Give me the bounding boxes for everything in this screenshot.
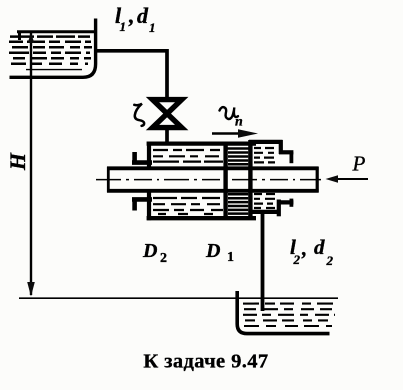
cylinder D2 top wall [147,142,256,146]
arrow P (force) [335,178,368,180]
D1 right end wall upper [279,140,283,154]
cylinder D2 bottom wall [147,216,256,220]
piston rod bottom edge [107,189,319,193]
H line top arrowhead [28,33,35,43]
svg-text:D: D [142,240,157,262]
piston right edge [248,140,252,218]
lower tank water hatching [243,304,335,326]
svg-text:,: , [301,236,307,260]
piston left edge [223,142,227,221]
fluid hatching right chamber upper [254,148,278,162]
arrow vn (piston velocity) [212,132,241,135]
right gland lower [277,200,293,204]
pipe 1 from valve to cylinder [165,128,169,142]
label zeta [134,104,144,126]
lower tank left wall and bottom [237,291,329,334]
fluid hatching left chamber upper [153,150,223,162]
svg-text:n: n [235,115,243,130]
pipe 2 from cylinder to lower tank [261,212,265,311]
lower free-surface level line [19,297,338,299]
upper tank surface line [17,30,94,33]
cylinder D1 bottom wall [251,210,281,214]
upper tank left rim tick [18,31,21,40]
rod left end cap [107,167,110,193]
svg-text:P: P [352,152,366,176]
upper tank lowest water line [26,69,82,71]
rod centerline (dash-dot) [96,179,321,181]
svg-text:2: 2 [293,252,301,267]
upper tank water hatching [9,37,92,64]
cylinder D2 left wall upper [147,142,151,168]
right gland upper [279,150,293,154]
P arrowhead [326,175,339,183]
fluid hatching left chamber lower [153,198,223,214]
svg-text:1: 1 [149,20,156,35]
label vn [220,107,239,119]
left gland lower [132,197,152,202]
svg-text:1: 1 [227,250,234,265]
fluid hatching right chamber lower [254,194,278,208]
svg-text:D: D [205,240,220,262]
rod right end cap [316,167,319,193]
vn arrowhead [238,129,258,138]
label l2,d2 [290,235,334,268]
dimension line H [30,33,32,295]
cylinder D1 top wall [249,140,283,144]
svg-text:H: H [5,152,30,171]
cylinder D2 left wall lower [147,192,151,221]
label l1,d1 [115,3,156,35]
svg-text:,: , [128,3,135,28]
pipe 1 from tank to valve [96,51,167,99]
D1 right end wall lower [277,200,281,217]
piston rod top edge [107,166,319,170]
left gland upper [132,152,137,164]
valve zeta (gate valve symbol) [153,100,182,128]
svg-text:d: d [314,235,325,259]
upper tank right wall and bottom [10,19,96,78]
piston hatching stripes [228,149,249,214]
H line bottom arrowhead [27,282,35,297]
svg-text:1: 1 [120,19,127,34]
svg-text:К задаче 9.47: К задаче 9.47 [143,351,268,373]
svg-text:2: 2 [326,253,334,268]
svg-text:2: 2 [160,251,167,266]
svg-text:d: d [137,3,149,28]
